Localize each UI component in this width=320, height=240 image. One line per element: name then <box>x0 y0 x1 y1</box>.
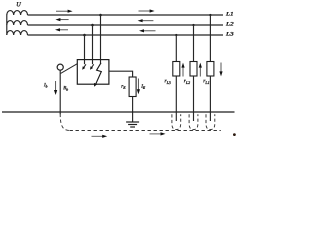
wire equipment to earthing resistor <box>109 71 133 77</box>
wire line L1 <box>28 14 224 16</box>
current arrow left on L2 (right group) <box>138 19 154 22</box>
current arrow left on L2 (left group) <box>55 18 68 21</box>
svg-text:rL1: rL1 <box>203 78 209 85</box>
phase current arrow inside box (L2) <box>90 64 94 69</box>
node dot on L1 feed <box>99 14 102 17</box>
phase current arrow inside box (L3) <box>82 64 86 69</box>
node dot on L2 tap (rL2) <box>192 24 194 26</box>
current IE arrow <box>137 79 140 95</box>
svg-text:L1: L1 <box>225 11 235 17</box>
earth surface line <box>2 111 235 113</box>
up arrow beside rL3 <box>181 63 184 77</box>
earth wire below rL3 <box>175 76 177 121</box>
label rL2 <box>184 78 190 85</box>
label L2 <box>225 21 235 27</box>
svg-text:L3: L3 <box>225 31 235 37</box>
wire line L3 <box>28 34 224 36</box>
label rL1 <box>203 78 209 85</box>
current arrow right on L1 (right group) <box>139 9 155 12</box>
tap wire L2 to rL2 <box>193 25 195 62</box>
person body wire Rb <box>59 70 61 114</box>
label Ib <box>43 82 48 88</box>
node dot on L1 tap (rL1) <box>209 14 211 16</box>
drop wire from L1 to equipment <box>100 15 102 63</box>
dashed fault current path from person <box>60 114 69 131</box>
transformer winding 3 <box>7 31 28 35</box>
label rE <box>121 85 126 90</box>
node dot on L2 feed <box>91 24 94 27</box>
svg-text:rL3: rL3 <box>164 78 170 85</box>
dashed loop around rL1 earth wire <box>206 114 215 129</box>
node dot on L3 feed <box>83 34 86 37</box>
resistor rL1 body <box>207 62 214 77</box>
resistor rL3 body <box>173 62 180 77</box>
label rL3 <box>164 78 170 85</box>
person head / contact point <box>57 64 63 70</box>
drop wire from L3 to equipment <box>84 35 86 64</box>
label IE <box>140 84 146 90</box>
label Rb <box>62 85 68 91</box>
earth current arrow right <box>150 132 166 135</box>
earth wire below rL2 <box>193 76 195 121</box>
label L1 <box>225 11 235 17</box>
tap wire L3 to rL3 <box>175 35 177 62</box>
drop wire from L2 to equipment <box>92 25 94 64</box>
svg-text:U: U <box>16 1 21 8</box>
insulation breakdown bolt <box>94 63 101 87</box>
svg-text:L2: L2 <box>225 21 235 27</box>
transformer left bus <box>6 15 8 36</box>
current arrow right on L1 (left group) <box>56 10 73 13</box>
wire earthing resistor to earth <box>132 97 134 123</box>
earth wire below rL1 <box>209 76 211 121</box>
transformer winding 1 <box>7 11 28 15</box>
current arrow left on L3 (right group) <box>139 29 156 32</box>
transformer winding 2 <box>7 21 28 25</box>
svg-text:rL2: rL2 <box>184 78 190 85</box>
current Ib arrow <box>54 81 57 95</box>
wire line L2 <box>28 24 224 26</box>
equipment case box <box>77 60 109 85</box>
up arrow beside rL2 <box>199 63 202 77</box>
dashed loop around rL3 earth wire <box>172 114 181 129</box>
dashed earth return path <box>70 130 221 132</box>
earth current arrow left <box>92 135 108 138</box>
label L3 <box>225 31 235 37</box>
node dot on L3 tap (rL3) <box>175 34 177 36</box>
tap wire L1 to rL1 <box>209 15 211 62</box>
earth ground symbol <box>126 122 139 127</box>
person arm wire to case <box>61 64 78 74</box>
stray print dot bottom right <box>233 133 236 136</box>
earthing resistor rE body <box>129 77 136 97</box>
dashed loop around rL2 earth wire <box>189 114 198 129</box>
transformer U label <box>16 1 21 8</box>
down arrow beside rL1 <box>219 63 222 77</box>
resistor rL2 body <box>190 62 197 77</box>
current arrow left on L3 (left group) <box>55 28 68 31</box>
